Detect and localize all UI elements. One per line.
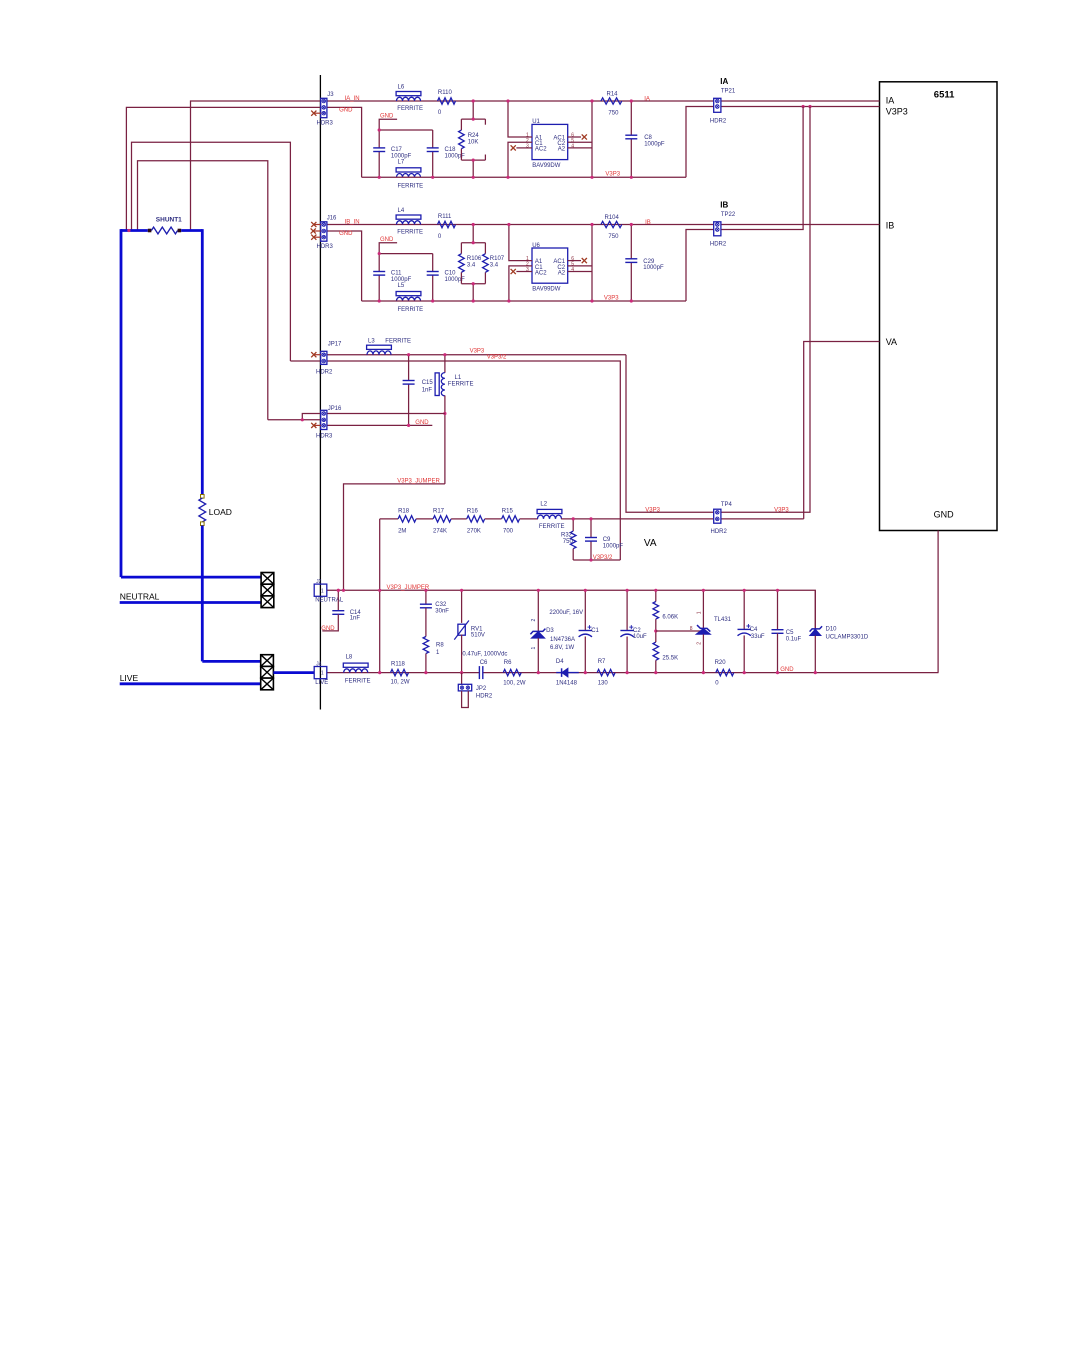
svg-text:3.4: 3.4 [467, 263, 476, 269]
blue wire to live block top [202, 660, 260, 663]
svg-text:BAV99DW: BAV99DW [532, 286, 561, 292]
no-connect X JP16 pin3 [314, 424, 321, 426]
junction C4 top [743, 589, 746, 592]
svg-text:L4: L4 [398, 208, 405, 214]
wire TL431 ref [656, 630, 701, 632]
svg-text:JP16: JP16 [328, 406, 342, 412]
capacitor C1 [584, 590, 586, 630]
svg-text:FERRITE: FERRITE [539, 524, 565, 530]
svg-text:HDR2: HDR2 [476, 693, 493, 699]
svg-text:R7: R7 [598, 659, 606, 665]
svg-text:GND: GND [339, 107, 353, 113]
wire GND stub JP16 pin3 [327, 424, 433, 426]
black bus line [319, 75, 321, 710]
svg-text:A2: A2 [558, 270, 566, 276]
svg-text:130: 130 [598, 680, 609, 686]
svg-text:C10: C10 [445, 271, 457, 277]
svg-text:GND: GND [415, 420, 429, 426]
wire U1 pin4 [568, 147, 592, 149]
IC U-6511 box [880, 82, 998, 531]
wire V3P3 rail channel B [362, 300, 686, 302]
wire J3 pin1 left to shunt [191, 101, 322, 231]
no-connect X J16 pin2 [313, 230, 321, 232]
diode D4 [556, 672, 579, 674]
wire U1 right riser [591, 101, 593, 177]
junction VA divider riser top [378, 589, 381, 592]
junction rail A C18 bottom [431, 176, 434, 179]
wire VA row to TP4 [561, 518, 804, 520]
junction C2 top [626, 589, 629, 592]
svg-text:A2: A2 [558, 147, 566, 153]
svg-text:R17: R17 [433, 508, 445, 514]
svg-text:R16: R16 [467, 508, 479, 514]
diode U6 BAV99DW box [532, 248, 568, 283]
capacitor C2 [626, 590, 628, 630]
svg-text:C6: C6 [480, 660, 488, 666]
capacitor C9 [590, 519, 592, 538]
connector J16 [321, 222, 327, 241]
svg-text:IA: IA [720, 77, 728, 86]
wire V3P3 TP4 row [626, 107, 810, 513]
svg-text:LOAD: LOAD [209, 507, 232, 517]
svg-text:NEUTRAL: NEUTRAL [120, 592, 160, 602]
svg-text:33uF: 33uF [751, 634, 765, 640]
svg-text:IA: IA [886, 95, 895, 105]
varistor RV1 [461, 590, 463, 623]
svg-text:1000pF: 1000pF [643, 265, 664, 271]
svg-text:L5: L5 [398, 283, 405, 289]
junction V3P3_JUMPER join [342, 589, 345, 592]
svg-text:1000pF: 1000pF [603, 544, 624, 550]
svg-text:V3P3_JUMPER: V3P3_JUMPER [397, 479, 440, 485]
svg-text:C8: C8 [644, 135, 652, 141]
svg-text:LIVE: LIVE [120, 673, 139, 683]
svg-text:IB: IB [720, 201, 728, 210]
junction C5 top [776, 589, 779, 592]
svg-text:1: 1 [531, 647, 537, 650]
svg-text:C18: C18 [445, 147, 457, 153]
capacitor C32 and resistor R8 [425, 590, 427, 604]
capacitor C8 [630, 101, 632, 135]
wire R17-R16 [451, 518, 467, 520]
ferrite L5 [396, 292, 421, 296]
svg-text:700: 700 [503, 529, 514, 535]
svg-text:U6: U6 [532, 243, 540, 249]
svg-text:IB: IB [886, 220, 895, 230]
junction IB row at C29 [630, 223, 633, 226]
capacitor C4 [743, 590, 745, 629]
svg-text:274K: 274K [433, 529, 447, 535]
svg-text:R111: R111 [438, 214, 452, 220]
svg-text:TL431: TL431 [714, 617, 732, 623]
svg-text:FERRITE: FERRITE [345, 678, 371, 684]
junction C32 top [424, 589, 427, 592]
junction rail B C11 bottom [378, 299, 381, 302]
wire supply bottom rail right [483, 672, 939, 674]
tvs diode D10 [814, 590, 816, 629]
svg-text:750: 750 [608, 234, 619, 240]
resistor R18 [398, 516, 416, 522]
svg-text:UCLAMP3301D: UCLAMP3301D [826, 634, 869, 640]
wire J3 pin2 left [126, 107, 321, 230]
terminal block live [261, 655, 274, 667]
capacitor C18 [432, 130, 434, 148]
wire C11-C10 top rail [379, 253, 433, 255]
svg-text:C2: C2 [633, 628, 641, 634]
diode U1 BAV99DW box [532, 124, 568, 159]
svg-text:V3P3: V3P3 [645, 508, 660, 514]
zener diode D3 [537, 590, 539, 631]
wire V3P3/2 row [327, 361, 621, 560]
wire V3P3 riser channel B [686, 107, 803, 302]
svg-text:10, 2W: 10, 2W [391, 680, 410, 686]
junction IA row at R24 [472, 99, 475, 102]
wire U6 right riser [591, 225, 593, 302]
svg-text:C5: C5 [786, 630, 794, 636]
blue wire shunt right down [201, 229, 204, 494]
junction RV1 bottom [460, 671, 463, 674]
wire R15-L2 [520, 518, 538, 520]
svg-text:D10: D10 [826, 626, 838, 632]
svg-text:1000pF: 1000pF [644, 142, 665, 148]
no-connect X J16 pin3 [314, 236, 321, 238]
svg-text:R104: R104 [605, 215, 620, 221]
svg-text:C11: C11 [391, 271, 402, 277]
wire JP16 pin1 right to L1 [327, 413, 445, 415]
svg-text:30nF: 30nF [435, 609, 449, 615]
svg-text:JP17: JP17 [328, 342, 342, 348]
junction divider top [654, 589, 657, 592]
wire U1 pin1 [508, 101, 532, 137]
wire R16-R15 [485, 518, 502, 520]
svg-text:FERRITE: FERRITE [385, 338, 411, 344]
svg-text:VA: VA [886, 337, 897, 347]
capacitor C29 [630, 225, 632, 259]
test point TP22 [714, 222, 721, 236]
svg-text:J3: J3 [327, 92, 334, 98]
svg-text:R6: R6 [504, 660, 512, 666]
svg-text:2: 2 [697, 642, 703, 645]
wire stub U6 pin3 [516, 271, 532, 273]
svg-text:D4: D4 [556, 659, 564, 665]
junction V3P3 wire x809 [808, 105, 811, 108]
wire supply top rail [327, 590, 816, 629]
svg-text:8: 8 [690, 626, 693, 632]
junction R8 bottom [424, 671, 427, 674]
svg-text:510V: 510V [471, 633, 485, 639]
svg-text:1nF: 1nF [350, 616, 361, 622]
svg-text:6.8V, 1W: 6.8V, 1W [550, 645, 574, 651]
no-connect X J3 pin3 [314, 112, 321, 114]
connector JP2 [461, 673, 463, 685]
svg-text:GND: GND [934, 509, 955, 519]
svg-text:1: 1 [697, 611, 703, 614]
junction C9 bottom [589, 558, 592, 561]
wire VA riser to 6511 [804, 342, 880, 519]
wire JP16 pin1 [302, 414, 321, 420]
svg-text:C17: C17 [391, 147, 403, 153]
svg-text:GND: GND [321, 626, 335, 632]
svg-text:V3P3/2: V3P3/2 [593, 555, 613, 561]
junction rail B U6 right [590, 299, 593, 302]
svg-text:750: 750 [608, 110, 619, 116]
svg-text:1: 1 [321, 588, 324, 594]
svg-text:100, 2W: 100, 2W [503, 680, 526, 686]
shunt regulator TL431 [702, 590, 704, 628]
svg-text:2M: 2M [398, 529, 406, 535]
svg-text:HDR3: HDR3 [316, 434, 333, 440]
capacitor C15 [408, 355, 410, 381]
ferrite L6 [396, 92, 421, 96]
svg-text:IB: IB [645, 220, 651, 226]
svg-text:FERRITE: FERRITE [398, 183, 424, 189]
resistor R7 [597, 669, 615, 675]
resistor divider 6.06K [655, 590, 657, 601]
resistors R106 R107 pair [472, 225, 474, 243]
resistor R20 [716, 669, 734, 675]
svg-text:1: 1 [321, 671, 324, 677]
svg-text:J2: J2 [316, 579, 322, 585]
svg-text:GND: GND [380, 114, 394, 120]
svg-text:RV1: RV1 [471, 626, 483, 632]
svg-text:AC2: AC2 [535, 270, 547, 276]
wire stub U1 pin6 [568, 136, 581, 138]
svg-text:L8: L8 [346, 654, 353, 660]
blue wire LIVE [120, 682, 261, 685]
svg-text:1N4148: 1N4148 [556, 680, 578, 686]
wire 6511 GND drop [937, 531, 939, 673]
connector J4 [314, 667, 327, 679]
svg-text:270K: 270K [467, 529, 481, 535]
svg-text:HDR2: HDR2 [710, 242, 727, 248]
svg-text:LIVE: LIVE [315, 680, 328, 686]
svg-text:AC2: AC2 [535, 147, 547, 153]
svg-text:JP2: JP2 [476, 686, 487, 692]
svg-text:C4: C4 [750, 627, 758, 633]
wire U6 pin2 [509, 266, 532, 301]
wire stub U1 pin3 [516, 147, 532, 149]
svg-text:NEUTRAL: NEUTRAL [315, 598, 344, 604]
svg-text:10uF: 10uF [633, 634, 647, 640]
junction R24 bottom [472, 159, 475, 162]
svg-text:L3: L3 [368, 338, 375, 344]
svg-text:BAV99DW: BAV99DW [532, 163, 561, 169]
svg-text:FERRITE: FERRITE [448, 382, 474, 388]
wire JP17 pin2 left [290, 360, 321, 362]
junction IB row at U6 pin1 [507, 223, 510, 226]
junction C2 bottom [626, 671, 629, 674]
svg-text:IA_IN: IA_IN [345, 96, 360, 102]
blue wire to neutral block top [121, 576, 261, 579]
junction IB row at R106 [472, 223, 475, 226]
svg-text:R8: R8 [436, 643, 444, 649]
connector J2 [314, 584, 327, 596]
resistor LOAD [201, 495, 205, 499]
svg-text:750: 750 [563, 539, 574, 545]
junction rail B R106 bottom [472, 299, 475, 302]
wire V3P3 riser to 6511 [686, 107, 880, 178]
junction rail B C29 bottom [630, 299, 633, 302]
wire U6 pin5 [568, 265, 592, 267]
svg-text:2: 2 [531, 619, 537, 622]
junction C1 bottom [584, 671, 587, 674]
no-connect X J16 pin1 [314, 224, 321, 226]
resistor R32 [572, 519, 574, 531]
blue wire block to J4 [273, 671, 314, 674]
svg-text:FERRITE: FERRITE [398, 307, 424, 313]
svg-text:HDR2: HDR2 [316, 370, 333, 376]
junction rail at C17 [378, 128, 381, 131]
svg-text:IA: IA [644, 96, 650, 102]
resistor R6 [503, 669, 521, 675]
junction C15 bottom [407, 424, 410, 427]
svg-text:R20: R20 [715, 660, 727, 666]
junction L1 at JP16 pin1 [443, 412, 446, 415]
svg-text:C29: C29 [643, 259, 655, 265]
junction R106 bottom [472, 282, 475, 285]
junction JP16 feed [301, 418, 304, 421]
svg-text:GND: GND [380, 237, 394, 243]
junction D3 top [537, 589, 540, 592]
junction rail B C10 bottom [431, 299, 434, 302]
wire U1 pin5 [568, 141, 592, 143]
svg-text:C1: C1 [591, 628, 599, 634]
svg-text:1000pF: 1000pF [445, 153, 466, 159]
no-connect X JP17 pin1 [314, 354, 321, 356]
resistor divider 25.5K [653, 642, 659, 660]
wire VA divider riser [379, 519, 381, 673]
svg-text:J16: J16 [327, 216, 337, 222]
junction C9 top [589, 517, 592, 520]
capacitor C5 [777, 590, 779, 629]
junction IA row at U1 right [590, 99, 593, 102]
shunt left feed wires [132, 142, 291, 361]
ferrite L8 [343, 663, 368, 667]
capacitor C11 [378, 254, 380, 272]
svg-text:L1: L1 [455, 375, 462, 381]
no-connect X U1 pin3 [511, 145, 516, 150]
ferrite L7 [396, 168, 421, 172]
resistor R15 [502, 516, 520, 522]
ferrite L2 [537, 509, 562, 513]
resistor R110 [438, 98, 456, 104]
svg-text:VA: VA [644, 538, 657, 549]
junction IB row at U6 right [590, 223, 593, 226]
capacitor C17 [378, 130, 380, 148]
svg-text:V3P3: V3P3 [886, 107, 908, 117]
junction V3P3 wire x803 [802, 105, 805, 108]
svg-text:V3P3_JUMPER: V3P3_JUMPER [387, 585, 430, 591]
svg-text:6511: 6511 [934, 89, 955, 100]
wire IA row J3 to 6511 [327, 100, 880, 102]
svg-text:C15: C15 [422, 380, 434, 386]
blue wire NEUTRAL [120, 601, 261, 604]
svg-text:2200uF, 16V: 2200uF, 16V [549, 610, 583, 616]
svg-text:R106: R106 [467, 256, 482, 262]
junction D10 bottom [814, 671, 817, 674]
junction VA divider riser bottom [378, 671, 381, 674]
svg-text:HDR3: HDR3 [317, 244, 334, 250]
svg-text:V3P3: V3P3 [470, 349, 485, 355]
junction J2 wire at C14 [337, 589, 340, 592]
svg-text:1N4736A: 1N4736A [550, 637, 575, 643]
svg-text:D3: D3 [546, 628, 554, 634]
svg-text:TP22: TP22 [721, 212, 736, 218]
capacitor C14 [337, 590, 339, 610]
resistor R17 [433, 516, 451, 522]
junction R24 top [472, 118, 475, 121]
wire V3P3 rail channel A [362, 176, 686, 178]
capacitor C6 [479, 666, 482, 679]
svg-text:1000pF: 1000pF [445, 277, 466, 283]
svg-text:L6: L6 [398, 85, 405, 91]
junction R106 top [472, 241, 475, 244]
junction D3 bottom [537, 671, 540, 674]
ferrite L1 [444, 355, 446, 373]
resistor R118 [391, 669, 409, 675]
junction rail A C17 bottom [378, 176, 381, 179]
svg-text:V3P3: V3P3 [604, 295, 619, 301]
junction TL431 bottom [702, 671, 705, 674]
svg-text:3.4: 3.4 [490, 263, 499, 269]
wire C17-C18 top rail [379, 129, 433, 131]
junction rail A U1 right [590, 176, 593, 179]
wire J3 pin2 GND right [327, 107, 362, 177]
junction C14 top [337, 589, 340, 592]
junction TL431 top [702, 589, 705, 592]
svg-text:R118: R118 [391, 661, 406, 667]
ferrite L4 [396, 215, 421, 219]
blue wire load down [201, 526, 204, 662]
junction rail B U6 pin2 [507, 299, 510, 302]
wire V3P3/2 rail [573, 559, 620, 561]
svg-text:0.1uF: 0.1uF [786, 637, 802, 643]
wire J16 pin2 GND right [327, 231, 362, 301]
svg-text:R14: R14 [607, 92, 619, 98]
wire V3P3_JUMPER upper [344, 484, 445, 590]
svg-text:GND: GND [780, 667, 794, 673]
terminal block neutral [261, 573, 274, 585]
svg-text:1nF: 1nF [422, 387, 433, 393]
svg-text:TP21: TP21 [721, 88, 736, 94]
svg-text:J4: J4 [316, 662, 322, 668]
svg-text:SHUNT1: SHUNT1 [156, 217, 182, 224]
svg-text:V3P3: V3P3 [605, 172, 620, 178]
svg-text:6.06K: 6.06K [662, 614, 678, 620]
connector JP17 [321, 351, 327, 364]
svg-text:R24: R24 [468, 133, 480, 139]
svg-text:C9: C9 [603, 537, 611, 543]
connector J3 [321, 98, 327, 117]
junction IA row at C8 [630, 99, 633, 102]
junction RV1 top [460, 589, 463, 592]
wire R18-R17 [416, 518, 433, 520]
wire U6 pin4 [568, 271, 592, 273]
junction divider mid [654, 629, 657, 632]
capacitor C10 [432, 254, 434, 272]
no-connect X U6 pin3 [511, 269, 516, 274]
junction divider bottom [654, 671, 657, 674]
svg-text:FERRITE: FERRITE [397, 230, 423, 236]
wire VA divider row [380, 518, 398, 520]
svg-text:V3P3: V3P3 [774, 508, 789, 514]
wire stub U6 pin6 [568, 260, 581, 262]
svg-text:25.5K: 25.5K [662, 656, 678, 662]
svg-text:10K: 10K [468, 140, 479, 146]
svg-text:HDR3: HDR3 [317, 120, 334, 126]
junction rail A U1 pin2 [506, 176, 509, 179]
svg-text:C32: C32 [435, 602, 447, 608]
